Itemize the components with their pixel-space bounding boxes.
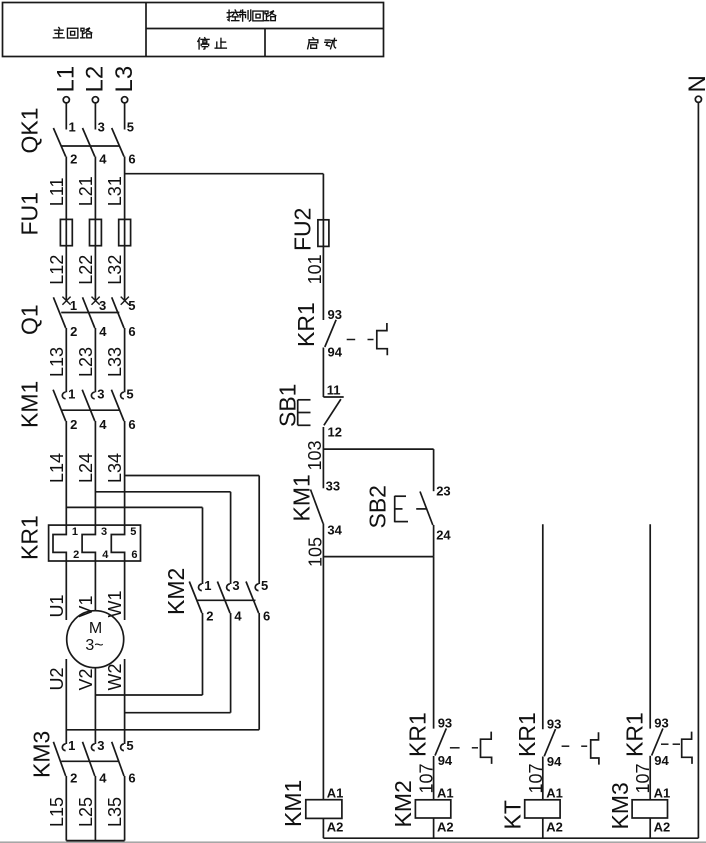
svg-text:L33: L33: [105, 347, 125, 377]
wire SB2 branch upper lead: [433, 449, 435, 491]
wire KT branch feed: [542, 524, 544, 729]
svg-text:L13: L13: [47, 347, 67, 377]
wire tap from L24 to KM2 contact pin 3: [95, 492, 230, 584]
fuse FU1 element pole 3: [119, 219, 131, 245]
wire L15 (KM3 down): [47, 776, 67, 841]
wire 101 feed: control main wire down to KR1 contact: [322, 174, 324, 320]
node L1: [53, 66, 80, 103]
wire W1 (KR1 to motor): [105, 561, 125, 620]
wire L1 lead into QK1 pin 1: [65, 103, 67, 129]
svg-text:KM3: KM3: [29, 731, 55, 778]
svg-text:101: 101: [305, 254, 325, 284]
wire label L12: [47, 255, 67, 285]
wire L2 lead into QK1 pin 3: [94, 103, 96, 129]
KR1 heater element pole 3 pins 5/6: [111, 525, 137, 561]
wire label L22: [76, 255, 96, 285]
svg-text:A1: A1: [654, 786, 671, 801]
svg-text:33: 33: [326, 479, 340, 494]
wire KM3 coil A2 to N bus: [649, 818, 651, 838]
table label 控制回路 (control circuit): [227, 10, 276, 21]
wire SB2-24 down to branch bottom: [433, 525, 435, 557]
svg-text:L21: L21: [76, 176, 96, 206]
pushbutton SB1 (stop, NC, pins 11-12): [275, 383, 344, 440]
svg-text:4: 4: [99, 324, 107, 339]
table label 停止 (stop): [198, 38, 227, 49]
relay contact KR1 (NC, pins 93-94): [514, 712, 599, 769]
svg-text:5: 5: [126, 386, 133, 401]
svg-text:A1: A1: [546, 786, 563, 801]
svg-text:23: 23: [436, 484, 450, 499]
wire V1 (KR1 to motor): [76, 561, 96, 618]
svg-text:2: 2: [70, 152, 77, 167]
svg-text:SB1: SB1: [275, 384, 301, 427]
wire node 105 down to KM2 branch KR1: [433, 557, 435, 729]
wire 107 (KT branch): [526, 757, 546, 800]
wire tap from L14 to KM2 contact pin 1: [66, 507, 202, 584]
svg-text:A2: A2: [654, 820, 671, 835]
svg-text:L32: L32: [105, 255, 125, 285]
svg-text:5: 5: [126, 738, 133, 753]
svg-text:1: 1: [204, 578, 211, 593]
wire 103: SB1-12 down through branch node to KM1-33: [305, 427, 325, 488]
svg-text:1: 1: [69, 120, 76, 135]
table label 启动 (start): [308, 38, 337, 49]
KR1 heater element pole 2 pins 3/4: [82, 525, 109, 561]
svg-text:4: 4: [99, 152, 107, 167]
svg-text:V1: V1: [76, 595, 96, 617]
KR1 heater element pole 1 pins 1/2: [53, 525, 79, 561]
svg-text:4: 4: [102, 549, 109, 561]
svg-text:KM1: KM1: [280, 780, 306, 827]
svg-text:U1: U1: [47, 594, 67, 617]
node L3: [111, 66, 138, 103]
svg-text:93: 93: [654, 716, 668, 731]
svg-text:1: 1: [68, 386, 75, 401]
wire L34 (KM1 to KR1 thermal): [105, 421, 125, 525]
svg-text:5: 5: [261, 578, 268, 593]
wire label L32: [105, 255, 125, 285]
wire KT coil A2 to N bus: [542, 818, 544, 838]
svg-text:3~: 3~: [85, 637, 103, 654]
svg-text:M: M: [89, 620, 102, 637]
svg-text:1: 1: [70, 298, 77, 313]
svg-text:L2: L2: [82, 66, 109, 93]
svg-text:FU1: FU1: [17, 192, 43, 235]
svg-text:L11: L11: [47, 177, 67, 206]
svg-text:24: 24: [436, 528, 451, 543]
wire KM2 pin 6 to motor terminal U2: [66, 613, 259, 730]
wire W2 (motor to KM3): [105, 659, 125, 744]
svg-text:34: 34: [327, 523, 342, 538]
fuse FU1 element pole 2: [90, 219, 102, 245]
wire tap from L34 to KM2 contact pin 5: [125, 476, 260, 585]
wire L35 (KM3 down): [105, 776, 125, 841]
svg-text:KR1: KR1: [293, 302, 319, 347]
wire KM2 pin 2 to motor terminal V2: [95, 613, 202, 695]
svg-text:3: 3: [97, 738, 104, 753]
svg-text:6: 6: [128, 771, 135, 786]
svg-text:94: 94: [654, 753, 669, 768]
contactor KM1 main contacts label: [17, 381, 43, 428]
svg-text:KT: KT: [500, 800, 526, 829]
switch QK1 poles with pins 1-6: [53, 120, 135, 167]
svg-text:FU2: FU2: [290, 208, 316, 251]
wire L11 (QK1 pin 2 down through fuse FU1 to Q1): [47, 157, 67, 300]
svg-text:6: 6: [131, 549, 137, 561]
wire U1 (KR1 to motor): [47, 561, 67, 620]
svg-text:L35: L35: [105, 797, 125, 827]
wire L23 (Q1 to KM1): [76, 328, 96, 392]
svg-text:1: 1: [68, 738, 75, 753]
svg-text:94: 94: [547, 754, 562, 769]
svg-text:L31: L31: [105, 176, 125, 206]
wire L3 lead into QK1 pin 5: [124, 103, 126, 129]
svg-text:KM1: KM1: [17, 381, 43, 428]
motor M 3~: [67, 611, 124, 668]
svg-text:L25: L25: [76, 797, 96, 827]
wire 105: KM1-34 down to KM1 coil: [306, 524, 326, 800]
svg-text:3: 3: [97, 386, 104, 401]
svg-text:4: 4: [99, 771, 107, 786]
svg-text:L34: L34: [105, 453, 125, 483]
svg-text:6: 6: [263, 609, 270, 624]
wire KM3 branch feed: [649, 524, 651, 728]
svg-text:3: 3: [101, 526, 107, 538]
wire KM2 pin 4 to motor terminal W2: [125, 613, 231, 713]
wire L33 (Q1 to KM1): [105, 328, 125, 392]
svg-text:L1: L1: [53, 66, 80, 93]
svg-text:KR1: KR1: [17, 515, 43, 560]
wire L14 (KM1 to KR1 thermal): [47, 421, 67, 525]
svg-text:L22: L22: [76, 255, 96, 285]
svg-text:94: 94: [438, 753, 453, 768]
fuse FU1 element pole 1: [60, 219, 72, 245]
wire KR1-94 to SB1-11: [322, 348, 324, 398]
svg-text:KR1: KR1: [405, 712, 431, 757]
pushbutton SB2 (start, NO, pins 23-24): [365, 484, 452, 543]
relay contact KR1 (NC, pins 93-94): [293, 302, 387, 359]
control feed wire from QK1 pin 6 to control circuit: [125, 173, 324, 175]
node N terminal: [684, 75, 706, 102]
svg-text:Q1: Q1: [17, 304, 43, 335]
contactor KM2 contacts label: [163, 568, 189, 615]
wire L24 (KM1 to KR1 thermal): [76, 421, 96, 525]
relay contact KR1 (NC, pins 93-94): [405, 712, 492, 768]
svg-text:2: 2: [206, 609, 213, 624]
svg-text:QK1: QK1: [17, 107, 43, 153]
table label 主回路 (main circuit): [53, 27, 91, 38]
svg-text:12: 12: [328, 425, 342, 440]
table frame: [3, 3, 384, 57]
wire label 101: [305, 254, 325, 284]
contactor KM3 contacts label: [29, 731, 55, 778]
svg-text:A1: A1: [327, 786, 344, 801]
switch QK1 label: [17, 107, 43, 153]
svg-text:L15: L15: [47, 797, 67, 827]
wire L21 (QK1 pin 4 down through fuse FU1 to Q1): [76, 157, 96, 300]
wire N down to bus: [697, 103, 699, 839]
svg-text:A2: A2: [437, 820, 454, 835]
wire L25 (KM3 down): [76, 776, 96, 841]
svg-text:11: 11: [327, 383, 341, 398]
svg-text:3: 3: [99, 298, 106, 313]
coil KM2 (A1-A2): [390, 780, 454, 834]
svg-text:6: 6: [128, 324, 135, 339]
svg-text:3: 3: [232, 578, 239, 593]
node L2: [82, 66, 109, 103]
wire KM2 coil A2 to N bus: [433, 818, 435, 838]
svg-text:93: 93: [328, 307, 342, 322]
svg-text:107: 107: [633, 763, 653, 793]
svg-text:5: 5: [127, 120, 134, 135]
svg-text:L3: L3: [111, 66, 138, 93]
thermal overload relay KR1 box: [49, 525, 141, 561]
fuse FU1 label: [17, 192, 43, 235]
svg-text:KR1: KR1: [514, 712, 540, 757]
svg-text:W2: W2: [105, 664, 125, 691]
svg-text:L24: L24: [76, 453, 96, 483]
wire L13 (Q1 to KM1): [47, 328, 67, 392]
svg-text:SB2: SB2: [365, 485, 391, 528]
svg-text:107: 107: [526, 763, 546, 793]
svg-text:L12: L12: [47, 255, 67, 285]
svg-text:4: 4: [99, 417, 107, 432]
svg-text:103: 103: [305, 440, 325, 470]
svg-text:KM2: KM2: [163, 568, 189, 615]
wire U2 (motor to KM3): [47, 659, 67, 744]
svg-text:1: 1: [72, 526, 78, 538]
svg-text:2: 2: [73, 549, 79, 561]
svg-text:N: N: [684, 75, 706, 92]
contactor KM3 contacts pins 1-6: [53, 738, 135, 786]
svg-text:V2: V2: [76, 668, 96, 690]
wire 107 (KM3 branch): [633, 756, 653, 800]
svg-text:4: 4: [234, 609, 242, 624]
svg-text:94: 94: [328, 345, 343, 360]
fuse FU2: [290, 208, 329, 251]
svg-text:KR1: KR1: [622, 712, 648, 757]
svg-text:U2: U2: [47, 667, 67, 690]
wire L31 (QK1 pin 6 down through fuse FU1 to Q1): [105, 157, 125, 300]
svg-text:107: 107: [417, 763, 437, 793]
svg-text:L14: L14: [47, 453, 67, 483]
contactor KM1 auxiliary contact (NO, pins 33-34): [289, 474, 343, 537]
wire branch bottom (node 105): [323, 556, 433, 558]
svg-text:93: 93: [438, 716, 452, 731]
svg-text:A1: A1: [437, 786, 454, 801]
contactor KM2 contacts pins 1-6: [189, 578, 270, 624]
wire N bus (bottom): [323, 837, 698, 839]
svg-text:3: 3: [98, 120, 105, 135]
svg-text:2: 2: [70, 324, 77, 339]
svg-text:2: 2: [70, 417, 77, 432]
breaker Q1 poles with pins 1-6: [53, 297, 135, 339]
relay contact KR1 (NC, pins 93-94): [622, 712, 693, 768]
svg-text:105: 105: [306, 537, 326, 567]
svg-text:KM1: KM1: [289, 474, 315, 521]
wire branch top (node 103): [323, 448, 433, 450]
svg-text:L23: L23: [76, 347, 96, 377]
svg-text:KM3: KM3: [607, 782, 633, 829]
svg-text:5: 5: [130, 526, 136, 538]
wire KM1 coil A2 to N bus: [322, 818, 324, 838]
breaker Q1 label: [17, 304, 43, 335]
wire bottom link of L15/L25/L35: [66, 840, 124, 842]
svg-text:6: 6: [128, 417, 135, 432]
svg-text:A2: A2: [546, 820, 563, 835]
contactor KM1 main contacts pins 1-6: [53, 386, 136, 432]
svg-text:KM2: KM2: [390, 780, 416, 827]
wire 107 (KM2 branch): [417, 756, 437, 800]
svg-text:5: 5: [128, 298, 135, 313]
thermal overload relay KR1 label: [17, 515, 43, 560]
bottom screen edge: [0, 841, 706, 843]
wire V2 (motor to KM3): [76, 668, 96, 744]
svg-text:6: 6: [128, 152, 135, 167]
svg-text:A2: A2: [327, 820, 344, 835]
svg-text:2: 2: [70, 771, 77, 786]
coil KT (A1-A2): [500, 786, 563, 835]
coil KM3 (A1-A2): [607, 782, 670, 834]
svg-text:93: 93: [547, 716, 561, 731]
coil KM1 (A1-A2): [280, 780, 343, 835]
